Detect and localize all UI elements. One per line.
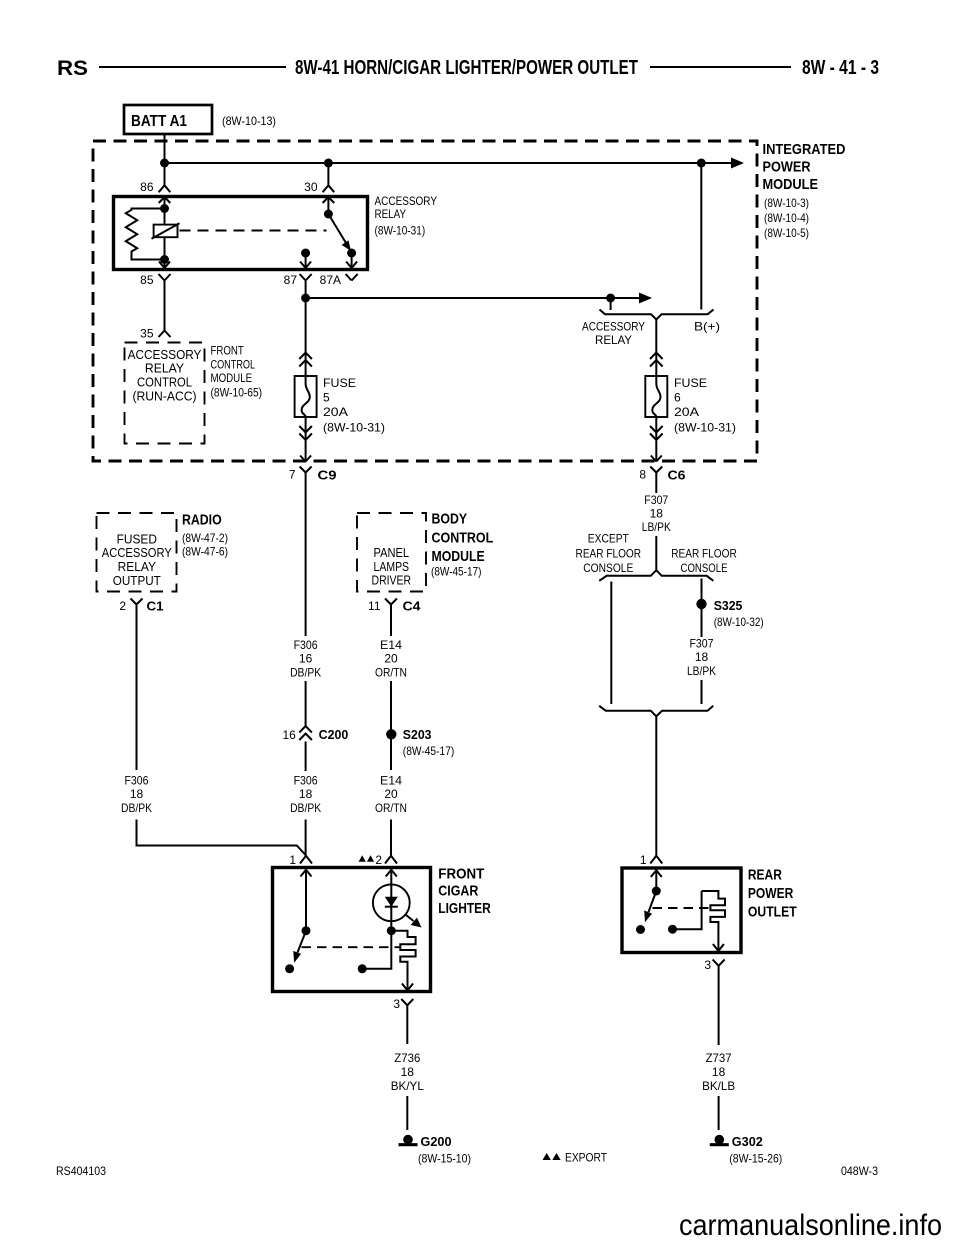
connector C200 (299, 726, 348, 742)
svg-text:BK/LB: BK/LB (702, 1079, 735, 1093)
branch label except rear floor console (576, 532, 642, 576)
arrow out of relay at 85 (159, 262, 170, 269)
pin 2 connector (385, 856, 397, 864)
node bus left (160, 159, 169, 168)
svg-text:LAMPS: LAMPS (374, 560, 410, 574)
arrow into outlet pin 1 (651, 870, 662, 877)
splice S203 reference (403, 744, 455, 758)
svg-text:FUSE: FUSE (674, 376, 707, 390)
svg-text:REAR: REAR (748, 866, 782, 883)
svg-text:RELAY: RELAY (118, 560, 157, 574)
wire C200 down (305, 742, 307, 772)
svg-text:16: 16 (299, 652, 313, 666)
svg-text:BODY: BODY (432, 510, 468, 527)
wire outlet switch feed (655, 870, 657, 892)
svg-text:F306: F306 (125, 774, 149, 788)
svg-text:(8W-10-31): (8W-10-31) (375, 226, 426, 238)
svg-text:MODULE: MODULE (763, 176, 819, 193)
node 87 feed junction (301, 294, 310, 303)
svg-text:POWER: POWER (748, 885, 794, 902)
export legend (543, 1151, 608, 1165)
lighter heating element (391, 931, 415, 990)
svg-text:POWER: POWER (763, 159, 811, 176)
node contact 87 (301, 249, 310, 258)
svg-text:1: 1 (289, 853, 296, 867)
wire label F306 16 DB/PK (290, 638, 321, 680)
node bus mid (324, 159, 333, 168)
wire fuse 5 to C9 (305, 417, 307, 461)
arrow into relay at 30 (323, 197, 335, 203)
svg-text:(8W-45-17): (8W-45-17) (403, 744, 455, 758)
ground G302 (710, 1134, 763, 1149)
wire main battery bus (165, 162, 732, 164)
pin 87 connector (300, 274, 312, 281)
svg-text:(8W-15-26): (8W-15-26) (729, 1152, 782, 1166)
svg-text:F306: F306 (294, 774, 318, 788)
wire label E14 20 OR/TN lower (375, 774, 407, 816)
wire label Z736 18 BK/YL (391, 1051, 424, 1093)
wire 87 to box edge (305, 253, 307, 268)
ground G200 (399, 1134, 452, 1149)
watermark (679, 1209, 942, 1242)
svg-text:1: 1 (640, 853, 647, 867)
radio port dashed box (97, 513, 177, 592)
pin 1 label outlet (640, 853, 647, 867)
svg-text:8W-41 HORN/CIGAR LIGHTER/POWER: 8W-41 HORN/CIGAR LIGHTER/POWER OUTLET (295, 57, 638, 79)
arrow at IPM border C9 (300, 456, 311, 462)
fuse 5 label (323, 376, 385, 435)
wire label F307 18 LB/PK branch (687, 637, 716, 679)
arrow into lighter pin 1 (301, 870, 312, 877)
svg-text:DB/PK: DB/PK (290, 801, 321, 815)
svg-text:3: 3 (704, 958, 711, 972)
connector C9 (300, 467, 337, 483)
pin 85 connector (159, 274, 171, 281)
svg-text:OR/TN: OR/TN (375, 666, 407, 680)
svg-text:8W - 41 - 3: 8W - 41 - 3 (802, 57, 879, 79)
svg-text:FRONT: FRONT (438, 866, 484, 883)
svg-text:G200: G200 (421, 1134, 452, 1149)
connector C6 (650, 467, 685, 483)
arrow accessory relay feed (639, 293, 652, 304)
pin 35 connector (159, 331, 171, 338)
wire relay switch common (327, 197, 329, 214)
pin 3 connector lighter (401, 999, 413, 1005)
svg-text:EXCEPT: EXCEPT (588, 532, 630, 546)
pin 16 label C200 (282, 728, 296, 742)
svg-text:(8W-47-2): (8W-47-2) (182, 531, 228, 545)
wire lighter switch feed (305, 869, 307, 931)
pin 7 label (289, 468, 296, 482)
wire C1 down (136, 605, 138, 771)
wire C9 down (305, 473, 307, 637)
ground G200 reference (418, 1152, 471, 1166)
node coil bottom (160, 255, 169, 264)
pin 87A connector (346, 274, 358, 281)
svg-text:S325: S325 (714, 598, 743, 613)
node bus right B(+) tap (697, 159, 706, 168)
svg-text:LB/PK: LB/PK (642, 520, 671, 534)
svg-text:16: 16 (282, 728, 296, 742)
node switch common (324, 210, 333, 219)
svg-text:(8W-45-17): (8W-45-17) (431, 565, 481, 579)
wire 87 down to junction (305, 281, 307, 299)
svg-text:F306: F306 (294, 638, 318, 652)
branch label rear floor console (671, 546, 737, 575)
fuse 6 label (674, 376, 736, 435)
svg-text:CONTROL: CONTROL (137, 375, 192, 389)
bus merge bracket top (600, 310, 714, 320)
svg-text:MODULE: MODULE (432, 548, 485, 565)
wire tap stub (610, 298, 612, 310)
svg-text:(8W-10-31): (8W-10-31) (323, 421, 385, 435)
wire B(+) drop (700, 163, 702, 310)
pin 8 label (639, 468, 646, 482)
pin 2 label C1 (119, 599, 126, 613)
accessory relay source label (582, 320, 645, 348)
svg-text:C200: C200 (319, 727, 349, 742)
svg-text:(8W-10-5): (8W-10-5) (764, 226, 809, 240)
svg-text:F307: F307 (690, 637, 714, 651)
svg-text:18: 18 (130, 787, 144, 801)
wire 87 feed to accessory relay bus (306, 297, 639, 299)
svg-text:PANEL: PANEL (374, 546, 410, 560)
pin 30 connector (323, 185, 335, 192)
wire C6 down (655, 473, 657, 494)
bus split bracket (599, 570, 713, 581)
footer drawing number left (56, 1164, 106, 1178)
svg-text:(8W-15-10): (8W-15-10) (418, 1152, 471, 1166)
svg-text:BK/YL: BK/YL (391, 1079, 424, 1093)
svg-text:E14: E14 (380, 774, 402, 788)
wire label F306 18 DB/PK centre (290, 774, 321, 816)
ground G302 reference (729, 1152, 782, 1166)
bus merge bracket bottom (599, 706, 713, 717)
connector C1 (131, 599, 164, 614)
svg-text:ACCESSORY: ACCESSORY (582, 320, 645, 334)
svg-text:Z737: Z737 (706, 1051, 732, 1065)
pin 1 connector (300, 856, 312, 864)
wire branch left console (610, 582, 612, 705)
arrow element to outlet pin 3 (713, 944, 724, 951)
accessory relay label (375, 196, 438, 238)
fuse 6 (645, 376, 667, 417)
wire radio branch elbow to pin 1 (137, 820, 307, 856)
svg-text:C4: C4 (403, 599, 422, 614)
BATT A1 reference (8W-10-13) (222, 114, 276, 128)
wire lighter lamp feed (390, 869, 392, 931)
splice S325 reference (714, 615, 764, 629)
node outlet socket contact (668, 925, 677, 934)
wire BATT A1 to bus (164, 134, 166, 163)
svg-text:35: 35 (140, 327, 154, 341)
svg-text:F307: F307 (644, 493, 668, 507)
svg-text:18: 18 (299, 787, 313, 801)
svg-text:carmanualsonline.info: carmanualsonline.info (679, 1209, 942, 1242)
relay coil (152, 223, 180, 239)
rear power outlet label (748, 866, 797, 920)
svg-text:RADIO: RADIO (182, 512, 222, 529)
wire 87 to fuse 5 (305, 298, 307, 376)
svg-text:B(+): B(+) (694, 320, 720, 334)
svg-text:18: 18 (650, 507, 664, 521)
pin 87A label (320, 273, 341, 287)
svg-text:8: 8 (639, 468, 646, 482)
svg-text:18: 18 (712, 1065, 726, 1079)
svg-text:048W-3: 048W-3 (841, 1164, 878, 1178)
svg-text:(8W-10-31): (8W-10-31) (674, 421, 736, 435)
wire outlet ground upper (718, 966, 720, 1045)
wire lighter ground upper (406, 1005, 408, 1044)
wire 85 to FCM pin 35 (164, 281, 166, 331)
svg-text:5: 5 (323, 391, 330, 405)
header page number (802, 57, 879, 79)
svg-text:E14: E14 (380, 638, 402, 652)
svg-text:3: 3 (393, 997, 400, 1011)
svg-text:18: 18 (401, 1065, 415, 1079)
pin 3 connector outlet (713, 960, 725, 966)
arrow at IPM border C6 (651, 456, 662, 462)
svg-text:DB/PK: DB/PK (121, 801, 152, 815)
body control module label (431, 510, 493, 578)
export marker pin 2 (359, 855, 375, 862)
pin 86 connector (159, 185, 171, 192)
svg-text:BATT A1: BATT A1 (131, 113, 187, 130)
rear power outlet box (622, 868, 741, 953)
pin 85 label (140, 273, 154, 287)
arrow element to pin 3 (402, 984, 413, 991)
svg-text:RELAY: RELAY (145, 362, 185, 376)
svg-text:S203: S203 (403, 727, 432, 742)
wire C200 branch to pin 1 (305, 820, 307, 856)
svg-text:OUTPUT: OUTPUT (113, 574, 161, 588)
node coil top (160, 204, 169, 213)
wire 87A to box edge (351, 253, 353, 268)
svg-text:RELAY: RELAY (375, 209, 407, 221)
lighter switch arm (293, 931, 306, 963)
wire merge to outlet pin 1 (655, 716, 657, 856)
pin 87 label (284, 273, 298, 287)
resistor relay shunt (126, 209, 165, 260)
svg-text:FUSE: FUSE (323, 376, 356, 390)
front control module label (211, 346, 263, 400)
svg-text:ACCESSORY: ACCESSORY (102, 546, 173, 560)
svg-text:C6: C6 (668, 468, 686, 483)
front control module port dashed box (125, 343, 205, 444)
svg-text:LB/PK: LB/PK (687, 664, 716, 678)
front cigar lighter box (273, 868, 431, 992)
wire lighter socket return (362, 931, 391, 969)
node contact 87A (347, 249, 356, 258)
wire label F307 18 LB/PK (642, 493, 671, 534)
arrow lamp indicator (406, 915, 422, 928)
svg-text:OUTLET: OUTLET (748, 904, 797, 921)
svg-text:ACCESSORY: ACCESSORY (375, 196, 438, 208)
pin 11 label C4 (368, 599, 381, 613)
integrated power module dashed box (93, 141, 757, 461)
wire branch right lower (701, 680, 703, 704)
pin 30 label (304, 180, 318, 194)
svg-text:7: 7 (289, 468, 296, 482)
svg-text:MODULE: MODULE (211, 373, 253, 385)
header label RS (57, 57, 88, 80)
svg-text:DRIVER: DRIVER (372, 574, 412, 588)
wire lighter ground lower (406, 1096, 408, 1130)
svg-text:(8W-10-13): (8W-10-13) (222, 114, 276, 128)
outlet switch arm (644, 891, 656, 922)
wire C4 down (390, 605, 392, 637)
lighter illumination lamp (373, 884, 410, 921)
svg-text:FUSED: FUSED (117, 532, 157, 546)
wire branch right to S325 (701, 579, 703, 638)
svg-text:86: 86 (140, 180, 154, 194)
svg-text:20A: 20A (674, 405, 699, 419)
pin 1 connector outlet (650, 856, 662, 864)
fuse 5 (295, 376, 317, 417)
svg-text:ACCESSORY: ACCESSORY (128, 348, 202, 362)
outlet actuation dashed link (653, 907, 711, 909)
pin 3 label lighter (393, 997, 400, 1011)
svg-text:Z736: Z736 (394, 1051, 420, 1065)
svg-text:(8W-47-6): (8W-47-6) (182, 545, 228, 559)
header rule left (99, 66, 286, 68)
wire label F306 18 DB/PK left (121, 774, 152, 816)
splice S203 (386, 727, 431, 742)
wire into split (655, 536, 657, 570)
header title (295, 57, 638, 79)
svg-text:87A: 87A (320, 273, 341, 287)
node outlet switch open contact (636, 925, 645, 934)
wire S203 branch to pin 2 (390, 820, 392, 856)
splice S325 (696, 598, 742, 613)
wire to C200 (305, 681, 307, 726)
svg-text:CONTROL: CONTROL (432, 530, 494, 547)
node lighter switch open contact (285, 964, 294, 973)
svg-text:C1: C1 (147, 599, 164, 614)
svg-text:REAR FLOOR: REAR FLOOR (576, 546, 642, 560)
svg-text:REAR FLOOR: REAR FLOOR (671, 546, 737, 560)
wire relay coil vertical (164, 197, 166, 268)
pin 3 label outlet (704, 958, 711, 972)
footer drawing number right (841, 1164, 878, 1178)
node lighter element top (387, 926, 396, 935)
svg-text:20: 20 (384, 787, 398, 801)
wire outlet socket return (673, 891, 702, 929)
pin 35 label (140, 327, 154, 341)
svg-text:C9: C9 (318, 468, 337, 483)
body control module port dashed box (357, 513, 426, 592)
svg-text:CONSOLE: CONSOLE (681, 561, 728, 575)
svg-text:EXPORT: EXPORT (565, 1151, 608, 1165)
accessory relay box (114, 197, 368, 270)
lighter actuation dashed link (302, 946, 401, 948)
svg-text:(8W-10-3): (8W-10-3) (764, 196, 809, 210)
svg-text:G302: G302 (732, 1134, 763, 1149)
radio label (182, 512, 228, 559)
wire label Z737 18 BK/LB (702, 1051, 735, 1093)
svg-text:(RUN-ACC): (RUN-ACC) (132, 389, 196, 403)
wire bus to relay pin 86 (164, 163, 166, 185)
svg-text:FRONT: FRONT (211, 346, 244, 358)
relay switch arm (328, 214, 351, 251)
svg-text:18: 18 (695, 650, 709, 664)
svg-text:2: 2 (375, 853, 382, 867)
wire merge to fuse 6 (655, 320, 657, 377)
svg-text:30: 30 (304, 180, 318, 194)
wire label E14 20 OR/TN (375, 638, 407, 680)
node accessory relay tap (606, 294, 615, 303)
arrow bus right end (731, 158, 744, 169)
svg-text:2: 2 (119, 599, 126, 613)
svg-text:CONSOLE: CONSOLE (583, 561, 633, 575)
svg-text:(8W-10-32): (8W-10-32) (714, 615, 764, 629)
arrow out of relay at 87 (300, 262, 311, 269)
wire to S203 (390, 681, 392, 770)
svg-text:6: 6 (674, 391, 681, 405)
node lighter socket contact (358, 964, 367, 973)
svg-text:RS: RS (57, 57, 88, 80)
svg-text:CIGAR: CIGAR (438, 882, 478, 899)
integrated power module label (763, 141, 846, 240)
connector chevrons above fuse 6 (650, 353, 663, 367)
connector chevrons below fuse 5 (299, 426, 312, 440)
pin 2 label (375, 853, 382, 867)
svg-text:RS404103: RS404103 (56, 1164, 106, 1178)
svg-text:CONTROL: CONTROL (211, 359, 256, 371)
svg-text:85: 85 (140, 273, 154, 287)
relay actuation dashed link (180, 229, 327, 231)
svg-text:11: 11 (368, 599, 381, 613)
pin 1 label (289, 853, 296, 867)
svg-text:DB/PK: DB/PK (290, 666, 321, 680)
wire fuse 6 to C6 (655, 417, 657, 461)
pin 86 label (140, 180, 154, 194)
B(+) label (694, 320, 720, 334)
outlet heating element (702, 891, 725, 950)
wire outlet ground lower (718, 1096, 720, 1130)
node lighter switch pivot (302, 926, 311, 935)
svg-text:87: 87 (284, 273, 298, 287)
svg-text:20A: 20A (323, 405, 348, 419)
arrow into relay at 86 (159, 197, 171, 203)
connector C4 (385, 599, 421, 614)
connector chevrons below fuse 6 (650, 426, 663, 440)
header rule right (650, 66, 791, 68)
svg-text:(8W-10-65): (8W-10-65) (211, 387, 263, 399)
svg-text:RELAY: RELAY (595, 333, 632, 347)
svg-text:20: 20 (384, 652, 398, 666)
svg-text:(8W-10-4): (8W-10-4) (764, 211, 809, 225)
node outlet switch pivot (652, 887, 661, 896)
svg-text:LIGHTER: LIGHTER (438, 900, 491, 917)
svg-text:OR/TN: OR/TN (375, 801, 407, 815)
arrow into lighter pin 2 (386, 870, 397, 877)
BATT A1 box (124, 105, 212, 134)
arrow out of relay at 87A (346, 262, 357, 269)
connector chevrons above fuse 5 (299, 353, 312, 367)
front cigar lighter label (438, 866, 491, 917)
svg-text:INTEGRATED: INTEGRATED (763, 141, 846, 158)
wire bus to relay pin 30 (327, 163, 329, 185)
